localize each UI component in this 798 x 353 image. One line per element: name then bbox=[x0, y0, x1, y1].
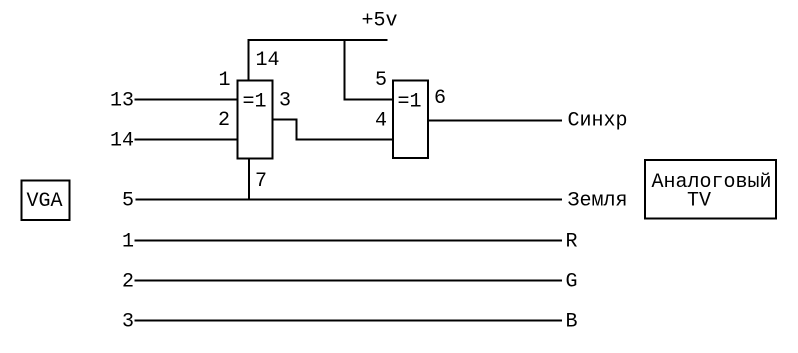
svg-text:B: B bbox=[566, 310, 578, 333]
xor gate U2 bbox=[393, 81, 428, 159]
svg-text:7: 7 bbox=[255, 170, 267, 193]
svg-text:5: 5 bbox=[122, 190, 134, 213]
wire B VGA pin3 to TV bbox=[135, 320, 563, 322]
device Analog TV box bbox=[645, 160, 776, 219]
svg-text:G: G bbox=[566, 270, 578, 293]
wire ground VGA pin5 to TV bbox=[136, 199, 563, 201]
wire U1 pin14 to +5v rail bbox=[248, 39, 250, 80]
svg-text:14: 14 bbox=[256, 49, 280, 72]
svg-text:Земля: Земля bbox=[568, 190, 628, 213]
svg-text:6: 6 bbox=[434, 87, 446, 110]
wire +5v rail bbox=[248, 39, 388, 41]
wire U2 pin6 to Sync output bbox=[429, 120, 562, 122]
svg-text:+5v: +5v bbox=[362, 10, 398, 33]
connector VGA box bbox=[22, 181, 70, 221]
svg-text:=1: =1 bbox=[398, 91, 422, 114]
svg-text:3: 3 bbox=[279, 90, 291, 113]
svg-text:4: 4 bbox=[375, 110, 387, 133]
wire VGA pin14 to U1 pin2 bbox=[135, 139, 238, 141]
svg-text:1: 1 bbox=[122, 230, 134, 253]
wire +5v rail drop to U2 pin5 bbox=[345, 39, 394, 100]
wire VGA pin13 to U1 pin1 bbox=[135, 99, 238, 101]
svg-text:Аналоговый: Аналоговый bbox=[652, 171, 772, 194]
svg-text:14: 14 bbox=[110, 130, 134, 153]
wire G VGA pin2 to TV bbox=[135, 280, 563, 282]
svg-text:=1: =1 bbox=[243, 91, 267, 114]
wire R VGA pin1 to TV bbox=[135, 240, 563, 242]
svg-text:VGA: VGA bbox=[27, 190, 63, 213]
svg-text:3: 3 bbox=[122, 310, 134, 333]
svg-text:Синхр: Синхр bbox=[568, 110, 628, 133]
svg-text:2: 2 bbox=[122, 270, 134, 293]
wire U1 pin3 to U2 pin4 bbox=[273, 120, 393, 140]
svg-text:1: 1 bbox=[219, 69, 231, 92]
svg-text:5: 5 bbox=[375, 69, 387, 92]
svg-text:2: 2 bbox=[218, 109, 230, 132]
svg-text:R: R bbox=[566, 230, 578, 253]
xor gate U1 bbox=[238, 81, 273, 159]
wire U1 pin7 to ground wire bbox=[248, 159, 250, 201]
svg-text:13: 13 bbox=[110, 90, 134, 113]
svg-text:TV: TV bbox=[687, 190, 711, 213]
